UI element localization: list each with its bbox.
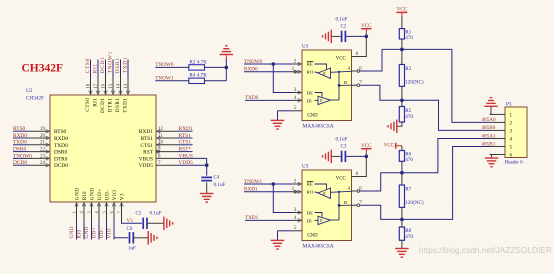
svg-text:0.1uF: 0.1uF (214, 182, 226, 188)
svg-text:470: 470 (405, 157, 413, 163)
svg-text:RE: RE (307, 182, 313, 187)
svg-text:R: R (323, 191, 326, 196)
svg-text:VCC: VCC (361, 144, 372, 149)
svg-text:DSR1: DSR1 (115, 57, 121, 73)
svg-text:DSR0: DSR0 (54, 150, 67, 156)
svg-text:0.1uF: 0.1uF (336, 137, 348, 143)
svg-text:UD-: UD- (104, 190, 110, 201)
svg-text:Header 6: Header 6 (505, 161, 524, 166)
svg-text:RTS1: RTS1 (179, 133, 192, 139)
svg-text:B: B (344, 80, 347, 85)
svg-text:RI1: RI1 (93, 63, 99, 73)
svg-text:13: 13 (124, 83, 129, 89)
svg-text:UD+: UD+ (97, 188, 103, 200)
svg-text:15: 15 (109, 83, 114, 89)
svg-text:DCD1: DCD1 (100, 98, 106, 114)
svg-text:485A1: 485A1 (482, 133, 497, 139)
svg-text:DCD0: DCD0 (54, 163, 68, 169)
svg-text:RE: RE (307, 62, 313, 67)
svg-text:470: 470 (405, 234, 413, 240)
svg-text:5: 5 (102, 211, 107, 214)
svg-text:RI1: RI1 (92, 98, 98, 107)
svg-text:470: 470 (405, 35, 413, 41)
svg-text:R2 4.7K: R2 4.7K (189, 59, 207, 65)
svg-text:VBUS: VBUS (179, 153, 193, 159)
svg-text:11: 11 (158, 134, 163, 139)
svg-text:VBUS: VBUS (139, 156, 153, 162)
svg-text:TXD0: TXD0 (13, 140, 27, 146)
svg-text:24: 24 (40, 161, 46, 166)
svg-text:19: 19 (40, 127, 46, 132)
svg-text:DTR1: DTR1 (107, 98, 113, 113)
svg-text:P3: P3 (506, 101, 512, 107)
svg-text:RI0: RI0 (82, 191, 88, 200)
svg-text:VIO: VIO (106, 228, 112, 238)
svg-text:R: R (323, 71, 326, 76)
svg-text:120(NC): 120(NC) (405, 78, 424, 85)
svg-text:MAX485CSA: MAX485CSA (303, 124, 334, 130)
svg-text:485B1: 485B1 (482, 141, 496, 147)
svg-text:R3: R3 (405, 66, 411, 72)
svg-text:C3: C3 (341, 144, 347, 149)
svg-text:DE: DE (307, 210, 313, 215)
svg-text:U3: U3 (302, 164, 309, 170)
svg-text:B: B (344, 200, 347, 205)
svg-text:RTS0: RTS0 (54, 129, 67, 135)
svg-text:CTS1: CTS1 (140, 143, 153, 149)
svg-text:485A0: 485A0 (482, 117, 497, 123)
svg-text:20: 20 (40, 134, 46, 139)
svg-text:3: 3 (87, 211, 92, 214)
svg-text:470: 470 (405, 114, 413, 120)
svg-text:VDD5: VDD5 (179, 160, 194, 166)
svg-text:TXD1: TXD1 (122, 97, 128, 112)
svg-text:7: 7 (117, 211, 122, 214)
svg-text:C2: C2 (341, 24, 347, 29)
svg-text:D: D (320, 218, 323, 223)
svg-text:CH342F: CH342F (26, 96, 44, 102)
svg-text:GND: GND (69, 226, 75, 238)
svg-text:TNOW1: TNOW1 (108, 51, 114, 73)
svg-text:VCC: VCC (384, 144, 395, 149)
svg-text:GND: GND (307, 113, 318, 118)
svg-text:VCC: VCC (361, 24, 372, 29)
svg-text:DI: DI (307, 218, 312, 223)
svg-text:RXD1: RXD1 (179, 126, 193, 132)
svg-text:RTS0: RTS0 (13, 126, 26, 132)
svg-text:DCD0: DCD0 (13, 160, 27, 166)
svg-text:VCC: VCC (336, 176, 346, 181)
svg-text:U1: U1 (302, 44, 309, 50)
svg-text:6: 6 (109, 211, 114, 214)
svg-text:CH342F: CH342F (22, 63, 64, 75)
svg-text:12: 12 (158, 127, 164, 132)
svg-text:0.1uF: 0.1uF (336, 17, 348, 23)
svg-text:22: 22 (40, 148, 46, 153)
svg-text:RXD0: RXD0 (54, 136, 68, 142)
svg-text:C4: C4 (214, 176, 220, 181)
svg-text:21: 21 (40, 141, 46, 146)
svg-text:TXD1: TXD1 (123, 57, 129, 73)
svg-text:RO: RO (307, 69, 314, 74)
svg-text:RTS1: RTS1 (141, 136, 154, 142)
svg-text:VDD5: VDD5 (139, 163, 154, 169)
svg-text:485B0: 485B0 (482, 125, 496, 131)
svg-text:UD+: UD+ (91, 227, 97, 239)
svg-text:TXD0: TXD0 (54, 143, 68, 149)
svg-text:C5: C5 (136, 212, 142, 217)
svg-text:DE: DE (307, 90, 313, 95)
svg-text:DCD1: DCD1 (100, 57, 106, 74)
svg-text:4: 4 (94, 211, 99, 214)
svg-text:RST: RST (143, 150, 154, 156)
svg-text:VIO: VIO (112, 190, 118, 201)
svg-text:RO: RO (307, 189, 314, 194)
svg-text:DSR1: DSR1 (115, 97, 121, 112)
svg-text:R7: R7 (405, 187, 411, 193)
svg-text:0.1uF: 0.1uF (150, 211, 162, 217)
svg-text:GND: GND (74, 188, 80, 201)
svg-text:14: 14 (117, 83, 122, 89)
svg-text:V3: V3 (119, 193, 125, 200)
svg-text:17: 17 (94, 83, 99, 89)
svg-text:MAX485CSA: MAX485CSA (303, 244, 334, 250)
svg-text:TNOW0: TNOW0 (13, 153, 32, 159)
svg-text:CTS0: CTS0 (85, 58, 91, 73)
svg-text:RST*: RST* (179, 147, 192, 153)
svg-text:18: 18 (87, 83, 92, 89)
svg-text:120(NC): 120(NC) (405, 199, 424, 206)
svg-text:CTS0: CTS0 (85, 98, 91, 112)
svg-text:UD-: UD- (99, 228, 105, 238)
svg-text:CTS1: CTS1 (179, 140, 192, 146)
svg-text:DSR0: DSR0 (13, 147, 26, 153)
svg-text:VCC: VCC (336, 56, 346, 61)
svg-text:1uF: 1uF (128, 247, 136, 252)
svg-text:D: D (320, 98, 323, 103)
svg-text:GND: GND (84, 226, 90, 238)
svg-text:GND: GND (89, 188, 95, 201)
svg-text:1: 1 (72, 211, 77, 213)
svg-text:2: 2 (79, 211, 84, 213)
svg-text:10: 10 (158, 141, 164, 146)
svg-text:RXD0: RXD0 (13, 133, 27, 139)
svg-text:DTR0: DTR0 (54, 156, 68, 162)
svg-text:R4 4.7K: R4 4.7K (189, 73, 207, 79)
svg-text:https://blog.csdn.net/JAZZSOLD: https://blog.csdn.net/JAZZSOLDIER (419, 245, 552, 255)
svg-text:RXD1: RXD1 (139, 129, 153, 135)
svg-text:V3: V3 (127, 219, 134, 224)
svg-text:GND: GND (307, 233, 318, 238)
svg-text:DI: DI (307, 98, 312, 103)
svg-text:RI0: RI0 (76, 230, 82, 239)
svg-text:U2: U2 (26, 88, 33, 94)
svg-text:23: 23 (40, 154, 46, 159)
svg-text:16: 16 (102, 83, 107, 89)
svg-text:C6: C6 (127, 227, 133, 232)
